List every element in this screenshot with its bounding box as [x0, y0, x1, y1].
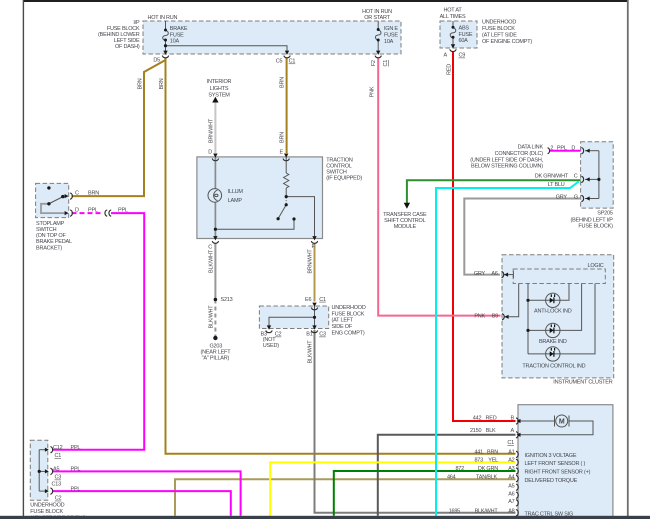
- svg-text:HOT IN RUN: HOT IN RUN: [362, 9, 392, 15]
- svg-text:PPL: PPL: [118, 208, 128, 214]
- svg-text:BRN: BRN: [159, 78, 165, 89]
- svg-text:ANTI-LOCK IND: ANTI-LOCK IND: [534, 308, 572, 314]
- svg-text:C: C: [208, 245, 212, 251]
- svg-text:TRACTION CONTROL IND: TRACTION CONTROL IND: [522, 363, 585, 369]
- svg-text:OF ENGINE COMPT): OF ENGINE COMPT): [482, 39, 532, 45]
- svg-text:A1: A1: [508, 449, 514, 455]
- svg-text:C5: C5: [276, 59, 283, 65]
- svg-text:BRAKE PEDAL: BRAKE PEDAL: [36, 239, 72, 245]
- svg-text:OR START: OR START: [364, 15, 390, 21]
- svg-text:442: 442: [473, 415, 482, 421]
- svg-text:TAN/BLK: TAN/BLK: [476, 474, 498, 480]
- svg-text:BRAKE IND: BRAKE IND: [539, 339, 567, 345]
- svg-text:LAMP: LAMP: [228, 198, 243, 204]
- svg-text:INSTRUMENT CLUSTER: INSTRUMENT CLUSTER: [553, 380, 612, 386]
- svg-text:S213: S213: [221, 297, 233, 303]
- svg-text:C: C: [574, 174, 578, 180]
- svg-text:BRACKET): BRACKET): [36, 245, 62, 251]
- svg-text:INTERIOR: INTERIOR: [207, 79, 232, 85]
- svg-text:PPL: PPL: [557, 146, 567, 152]
- svg-text:IGN E: IGN E: [384, 26, 398, 32]
- svg-text:873: 873: [474, 457, 483, 463]
- svg-text:(NEAR LEFT: (NEAR LEFT: [200, 349, 231, 355]
- svg-text:C1: C1: [383, 60, 389, 67]
- svg-text:G: G: [574, 194, 578, 200]
- svg-text:ILLUM: ILLUM: [228, 189, 244, 195]
- svg-text:A7: A7: [508, 499, 514, 505]
- svg-text:D: D: [571, 146, 575, 152]
- svg-text:DK GRN: DK GRN: [478, 466, 498, 472]
- svg-text:BRAKE: BRAKE: [170, 26, 188, 32]
- svg-text:C3: C3: [319, 332, 326, 338]
- svg-text:1695: 1695: [449, 508, 461, 514]
- svg-text:ENG COMPT): ENG COMPT): [332, 331, 365, 337]
- svg-text:PPL: PPL: [71, 487, 81, 493]
- svg-text:E: E: [280, 150, 284, 156]
- svg-text:FUSE BLOCK: FUSE BLOCK: [482, 26, 515, 32]
- svg-text:D5: D5: [153, 58, 160, 64]
- svg-text:GRY: GRY: [556, 194, 568, 200]
- svg-text:E6: E6: [305, 297, 311, 303]
- svg-text:10A: 10A: [170, 39, 180, 45]
- svg-text:DELIVERED TORQUE: DELIVERED TORQUE: [525, 478, 578, 484]
- svg-text:BRN/WHT: BRN/WHT: [307, 249, 313, 274]
- svg-text:(AT LEFT: (AT LEFT: [332, 318, 354, 324]
- svg-text:B: B: [511, 415, 515, 421]
- svg-text:C1: C1: [55, 453, 62, 459]
- svg-text:GRY: GRY: [474, 271, 486, 277]
- svg-text:SYSTEM: SYSTEM: [208, 93, 230, 99]
- svg-text:RED: RED: [486, 415, 497, 421]
- svg-text:C2: C2: [275, 332, 282, 338]
- svg-text:A2: A2: [508, 457, 514, 463]
- svg-text:C9: C9: [459, 53, 466, 59]
- svg-text:TRANSFER CASE: TRANSFER CASE: [383, 212, 427, 218]
- svg-text:PNK: PNK: [474, 314, 485, 320]
- svg-text:D: D: [75, 208, 79, 214]
- svg-text:LIGHTS: LIGHTS: [210, 86, 229, 92]
- svg-text:C: C: [75, 191, 79, 197]
- svg-text:C2: C2: [55, 496, 62, 502]
- svg-text:MODULE: MODULE: [394, 224, 417, 230]
- svg-text:FUSE: FUSE: [170, 32, 184, 38]
- svg-text:872: 872: [455, 466, 464, 472]
- svg-text:441: 441: [474, 449, 483, 455]
- svg-text:RIGHT FRONT SENSOR (+): RIGHT FRONT SENSOR (+): [525, 470, 591, 476]
- svg-text:M: M: [559, 418, 565, 425]
- svg-text:ALL TIMES: ALL TIMES: [440, 14, 466, 20]
- svg-text:A4: A4: [508, 474, 514, 480]
- svg-text:PPL: PPL: [71, 467, 81, 473]
- svg-text:A: A: [444, 53, 448, 59]
- svg-text:F2: F2: [371, 60, 377, 66]
- svg-text:A: A: [511, 428, 515, 434]
- svg-text:D: D: [208, 150, 212, 156]
- svg-text:OF DASH): OF DASH): [115, 44, 140, 50]
- svg-text:HOT IN RUN: HOT IN RUN: [148, 15, 178, 21]
- svg-text:C13: C13: [52, 481, 62, 487]
- svg-text:2150: 2150: [470, 428, 482, 434]
- svg-text:A6: A6: [508, 491, 514, 497]
- svg-text:C12: C12: [53, 445, 63, 451]
- svg-text:A5: A5: [53, 467, 59, 473]
- svg-text:BRN: BRN: [487, 449, 498, 455]
- svg-text:DATA LINK: DATA LINK: [518, 145, 544, 151]
- svg-text:UNDERHOOD: UNDERHOOD: [332, 305, 366, 311]
- svg-text:BRN: BRN: [137, 78, 143, 89]
- svg-text:A5: A5: [508, 483, 514, 489]
- svg-text:PNK: PNK: [369, 86, 375, 97]
- svg-text:UNDERHOOD: UNDERHOOD: [482, 20, 516, 26]
- svg-text:SWITCH: SWITCH: [36, 227, 57, 233]
- svg-text:PPL: PPL: [88, 208, 98, 214]
- svg-text:LT BLU: LT BLU: [548, 182, 565, 188]
- svg-text:FUSE BLOCK: FUSE BLOCK: [30, 509, 63, 515]
- svg-text:C1: C1: [289, 59, 296, 65]
- svg-text:A6: A6: [491, 271, 497, 277]
- svg-text:BLK/WHT: BLK/WHT: [475, 508, 499, 514]
- svg-text:BRN: BRN: [279, 132, 285, 143]
- svg-text:RED: RED: [446, 64, 452, 75]
- svg-text:ABS: ABS: [459, 26, 470, 32]
- svg-text:BLK/WHT: BLK/WHT: [208, 249, 214, 273]
- svg-text:LOGIC: LOGIC: [587, 263, 603, 269]
- svg-text:BRN: BRN: [279, 77, 285, 88]
- svg-text:FUSE BLOCK: FUSE BLOCK: [332, 311, 365, 317]
- svg-text:C1: C1: [507, 440, 514, 446]
- svg-text:464: 464: [447, 474, 456, 480]
- svg-text:B9: B9: [492, 314, 498, 320]
- svg-text:(UNDER LEFT SIDE OF DASH,: (UNDER LEFT SIDE OF DASH,: [470, 157, 543, 163]
- svg-text:B1: B1: [306, 332, 312, 338]
- svg-text:SIDE OF: SIDE OF: [332, 324, 353, 330]
- svg-text:UNDERHOOD: UNDERHOOD: [30, 503, 64, 509]
- svg-text:CONNECTOR (DLC): CONNECTOR (DLC): [495, 151, 544, 157]
- svg-text:BLK/WHT: BLK/WHT: [307, 340, 313, 364]
- svg-text:2: 2: [550, 146, 553, 152]
- svg-text:LEFT FRONT SENSOR ( ): LEFT FRONT SENSOR ( ): [525, 461, 586, 467]
- svg-text:BELOW STEERING COLUMN): BELOW STEERING COLUMN): [471, 164, 543, 170]
- svg-text:YEL: YEL: [488, 457, 498, 463]
- svg-text:C1: C1: [319, 297, 326, 303]
- svg-text:BRN: BRN: [88, 191, 99, 197]
- svg-text:10A: 10A: [384, 39, 394, 45]
- svg-text:(IF EQUIPPED): (IF EQUIPPED): [326, 175, 362, 181]
- svg-text:(AT LEFT SIDE: (AT LEFT SIDE: [482, 33, 517, 39]
- svg-text:A3: A3: [508, 466, 514, 472]
- svg-text:"A" PILLAR): "A" PILLAR): [202, 355, 230, 361]
- svg-text:FUSE: FUSE: [459, 32, 473, 38]
- svg-text:C3: C3: [55, 475, 62, 481]
- svg-text:SHIFT CONTROL: SHIFT CONTROL: [384, 218, 426, 224]
- svg-text:(BEHIND LEFT I/P: (BEHIND LEFT I/P: [570, 217, 613, 223]
- svg-text:IGNITION 3 VOLTAGE: IGNITION 3 VOLTAGE: [525, 453, 577, 459]
- svg-text:DK GRN/WHT: DK GRN/WHT: [535, 174, 569, 180]
- svg-text:60A: 60A: [459, 38, 469, 44]
- svg-text:BLK/WHT: BLK/WHT: [208, 305, 214, 329]
- svg-text:FUSE: FUSE: [384, 33, 398, 39]
- svg-text:A8: A8: [508, 508, 514, 514]
- svg-text:BRN/WHT: BRN/WHT: [208, 118, 214, 143]
- svg-text:USED): USED): [263, 343, 279, 349]
- svg-text:HOT AT: HOT AT: [443, 8, 462, 14]
- svg-text:FUSE BLOCK): FUSE BLOCK): [578, 223, 613, 229]
- svg-text:BLK: BLK: [486, 428, 496, 434]
- svg-text:PPL: PPL: [71, 445, 81, 451]
- svg-text:SP205: SP205: [597, 211, 613, 217]
